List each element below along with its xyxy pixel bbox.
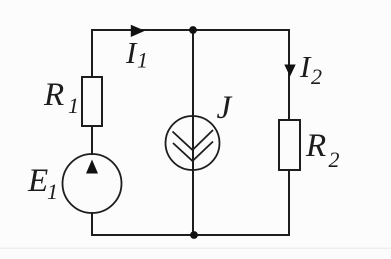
svg-text:R: R	[305, 128, 326, 164]
svg-text:J: J	[217, 90, 233, 126]
wire top horizontal	[92, 29, 289, 31]
svg-text:1: 1	[68, 93, 79, 118]
J chevron upper	[173, 130, 214, 150]
resistor R1	[82, 77, 102, 126]
svg-text:2: 2	[311, 64, 322, 89]
voltage source E1	[63, 154, 122, 213]
wire left top segment	[91, 30, 93, 77]
wire left between R1 and E1	[91, 126, 93, 154]
faint separator line bottom	[0, 248, 391, 250]
current source J	[166, 116, 220, 170]
wire right below R2	[288, 170, 290, 235]
wire bottom horizontal	[92, 234, 289, 236]
svg-text:2: 2	[329, 147, 340, 172]
resistor R2	[279, 120, 300, 170]
J chevron lower	[173, 142, 213, 162]
junction node bottom	[190, 231, 198, 239]
junction node top	[189, 26, 197, 34]
svg-text:E: E	[27, 163, 48, 199]
svg-text:1: 1	[137, 48, 148, 73]
wire middle branch	[192, 30, 194, 235]
wire right top segment	[288, 30, 290, 120]
E1 arrow	[86, 160, 98, 174]
svg-text:1: 1	[47, 179, 58, 204]
arrow I2	[284, 65, 295, 77]
svg-text:R: R	[43, 77, 64, 113]
arrow I1	[131, 25, 145, 37]
wire left below E1	[91, 213, 93, 235]
